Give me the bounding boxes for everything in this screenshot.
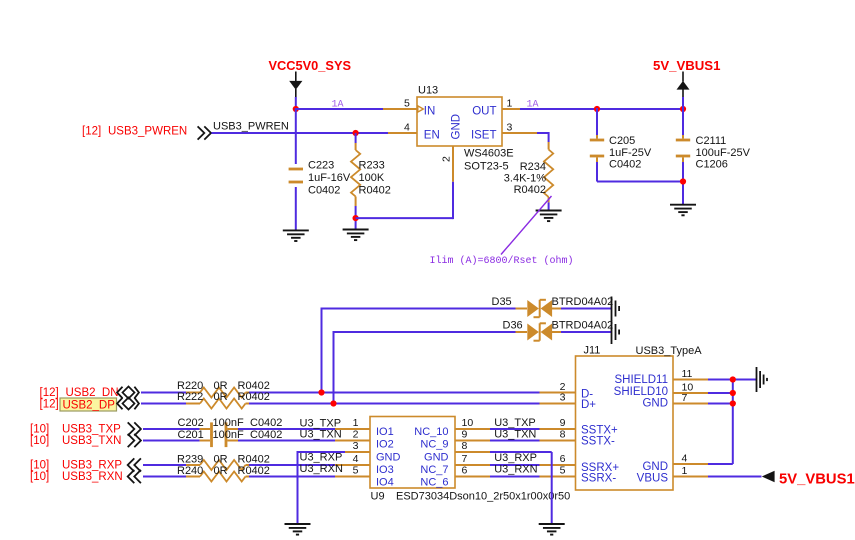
svg-text:U3_TXP: U3_TXP [494,417,536,429]
svg-text:VCC5V0_SYS: VCC5V0_SYS [269,58,352,73]
svg-text:[10]: [10] [30,460,49,472]
svg-text:R0402: R0402 [238,465,270,477]
svg-text:SSTX-: SSTX- [581,435,615,447]
svg-text:1A: 1A [332,100,344,111]
svg-text:U3_RXN: U3_RXN [494,463,537,475]
svg-text:7: 7 [682,392,688,404]
svg-text:6: 6 [462,465,468,477]
svg-text:9: 9 [462,429,468,441]
svg-text:NC_9: NC_9 [420,439,448,451]
svg-text:10: 10 [462,417,474,429]
svg-text:R222: R222 [177,391,203,403]
svg-text:ESD73034Dson10_2r50x1r00x0r50: ESD73034Dson10_2r50x1r00x0r50 [396,491,570,503]
svg-text:IO4: IO4 [376,477,394,489]
svg-text:SSRX-: SSRX- [581,473,616,485]
svg-text:11: 11 [682,368,693,380]
svg-text:3: 3 [560,392,566,404]
svg-text:NC_10: NC_10 [414,426,448,438]
svg-text:SHIELD11: SHIELD11 [615,374,668,386]
svg-text:GND: GND [451,114,463,140]
svg-text:R0402: R0402 [514,184,546,196]
svg-text:9: 9 [560,417,566,429]
svg-text:2: 2 [441,156,453,162]
svg-text:GND: GND [424,451,449,463]
svg-text:USB2_DN: USB2_DN [66,387,119,399]
svg-text:R0402: R0402 [359,185,391,197]
svg-text:U3_TXN: U3_TXN [300,429,342,441]
svg-text:1: 1 [353,417,359,429]
svg-text:NC_7: NC_7 [420,464,448,476]
svg-text:U3_RXP: U3_RXP [494,452,537,464]
svg-text:IO2: IO2 [376,439,394,451]
svg-text:C0402: C0402 [609,159,641,171]
svg-text:R234: R234 [520,161,546,173]
svg-text:C223: C223 [308,159,334,171]
svg-text:100nF: 100nF [213,417,244,429]
svg-text:NC_6: NC_6 [420,477,448,489]
svg-text:3: 3 [507,122,513,134]
svg-text:1A: 1A [527,100,539,111]
svg-text:R233: R233 [359,159,385,171]
svg-text:ISET: ISET [471,130,497,142]
svg-text:VBUS: VBUS [637,472,669,484]
svg-text:D+: D+ [581,399,596,411]
svg-text:[12]: [12] [82,126,101,138]
svg-text:C201: C201 [178,429,204,441]
svg-text:J11: J11 [584,345,601,357]
svg-text:U3_RXN: U3_RXN [300,463,343,475]
svg-text:6: 6 [560,453,566,465]
svg-text:C0402: C0402 [250,429,282,441]
svg-text:[12]: [12] [40,387,59,399]
svg-text:7: 7 [462,453,468,465]
svg-text:100nF: 100nF [213,429,244,441]
svg-text:C205: C205 [609,135,635,147]
svg-text:2: 2 [353,429,359,441]
svg-text:WS4603E: WS4603E [464,148,514,160]
svg-text:4: 4 [353,453,359,465]
svg-text:0R: 0R [214,391,228,403]
svg-text:SOT23-5: SOT23-5 [464,160,509,172]
svg-text:USB3_RXN: USB3_RXN [62,471,123,483]
svg-text:R0402: R0402 [238,454,270,466]
svg-text:U3_RXP: U3_RXP [300,452,343,464]
svg-text:BTRD04A02: BTRD04A02 [552,296,614,308]
svg-text:5V_VBUS1: 5V_VBUS1 [779,472,855,488]
svg-text:5: 5 [353,465,359,477]
svg-text:4: 4 [682,453,688,465]
svg-text:C2111: C2111 [696,135,727,147]
svg-text:BTRD04A02: BTRD04A02 [552,320,614,332]
svg-text:[10]: [10] [30,471,49,483]
svg-text:R0402: R0402 [238,391,270,403]
svg-text:OUT: OUT [472,105,496,117]
svg-text:3: 3 [353,440,359,452]
svg-text:100uF-25V: 100uF-25V [696,147,751,159]
svg-text:5V_VBUS1: 5V_VBUS1 [653,58,720,73]
svg-text:C0402: C0402 [308,185,340,197]
svg-text:R239: R239 [177,454,203,466]
svg-text:1uF-25V: 1uF-25V [609,147,652,159]
svg-text:C202: C202 [178,417,204,429]
svg-text:100K: 100K [359,172,385,184]
svg-text:Ilim (A)=6800/Rset (ohm): Ilim (A)=6800/Rset (ohm) [430,255,574,267]
svg-text:4: 4 [404,122,410,134]
svg-text:EN: EN [424,130,440,142]
svg-text:D36: D36 [503,320,523,332]
svg-text:5: 5 [404,98,410,110]
svg-text:USB3_TXN: USB3_TXN [62,435,121,447]
svg-text:GND: GND [376,451,401,463]
svg-text:5: 5 [560,465,566,477]
svg-text:[12]: [12] [40,399,59,411]
svg-text:8: 8 [462,440,468,452]
svg-text:SHIELD10: SHIELD10 [614,386,668,398]
svg-text:3.4K-1%: 3.4K-1% [504,173,546,185]
svg-text:U3_TXN: U3_TXN [494,428,536,440]
svg-text:1: 1 [682,465,688,477]
svg-text:GND: GND [642,461,668,473]
svg-text:8: 8 [560,429,566,441]
svg-text:IO3: IO3 [376,464,394,476]
svg-text:U9: U9 [371,491,385,503]
svg-text:[10]: [10] [30,435,49,447]
svg-text:C0402: C0402 [250,417,282,429]
svg-text:USB3_RXP: USB3_RXP [62,460,122,472]
svg-text:0R: 0R [214,465,228,477]
svg-text:USB3_PWREN: USB3_PWREN [108,126,187,138]
svg-text:R240: R240 [177,465,203,477]
svg-text:U3_TXP: U3_TXP [300,417,342,429]
svg-text:USB3_TypeA: USB3_TypeA [636,345,703,357]
svg-text:USB3_TXP: USB3_TXP [62,424,121,436]
svg-text:0R: 0R [214,454,228,466]
svg-text:[10]: [10] [30,424,49,436]
svg-text:C1206: C1206 [696,159,728,171]
svg-text:USB2_DP: USB2_DP [63,400,116,412]
svg-text:U13: U13 [418,85,438,97]
svg-text:IO1: IO1 [376,426,394,438]
svg-text:D35: D35 [492,296,512,308]
svg-text:USB3_PWREN: USB3_PWREN [213,121,289,133]
svg-text:GND: GND [642,397,668,409]
svg-text:1: 1 [507,98,513,110]
svg-text:IN: IN [424,105,436,117]
svg-text:1uF-16V: 1uF-16V [308,172,351,184]
